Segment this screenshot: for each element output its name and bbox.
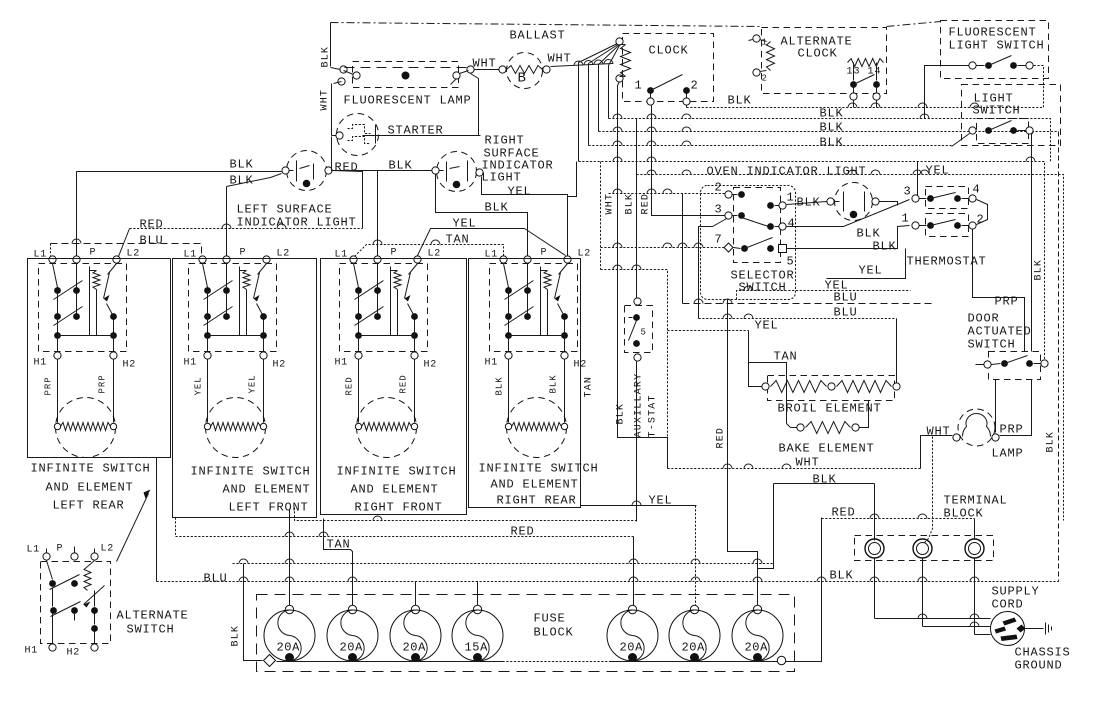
svg-text:H1: H1 [184, 358, 198, 369]
wire YEL bottom seg [581, 505, 697, 507]
svg-text:P: P [57, 544, 64, 555]
fuse F2 20A [348, 605, 356, 613]
resistor broil coil 1 [771, 381, 827, 393]
node clock coil terminals [616, 38, 623, 45]
svg-text:BALLAST: BALLAST [510, 29, 566, 43]
switch thermostat row2 [912, 222, 919, 229]
alternate clock dashed box [762, 28, 887, 94]
resistor alt clock coil [767, 42, 775, 71]
svg-text:YEL: YEL [859, 264, 883, 278]
wire fuse bottom rail 1 [277, 661, 503, 663]
svg-text:BLU: BLU [834, 306, 858, 320]
resistor bake coil [806, 422, 851, 434]
wire TAN L1u3 to L1u4 [355, 245, 504, 257]
wire unit1 riser to BLU [156, 458, 158, 582]
node ballast terminals [499, 66, 506, 73]
wire alt H wires [52, 614, 54, 644]
resistor ballast coil [507, 66, 543, 74]
wire BLU-BLK y581 [157, 581, 1059, 583]
wire vertical feeder x608 [608, 66, 610, 119]
supply cord plug [991, 612, 1025, 646]
node terminal post 3 [965, 539, 984, 558]
svg-text:4: 4 [973, 183, 981, 197]
svg-text:YEL: YEL [926, 164, 950, 178]
switch aux tstat contacts [633, 314, 640, 321]
left surface indicator light circle [287, 151, 327, 191]
fuse F7 20A [753, 605, 761, 613]
wire vertical feeder x588 [588, 64, 590, 146]
svg-text:L2: L2 [127, 249, 141, 260]
svg-text:WHT: WHT [605, 193, 616, 215]
wire pin2 long feed y193 [609, 193, 725, 195]
node alt lower dots [91, 607, 98, 614]
svg-text:BLK: BLK [830, 569, 854, 583]
wire clock pin2 down [686, 105, 688, 108]
node broil terminals [762, 383, 769, 390]
svg-text:BLK: BLK [820, 121, 844, 135]
svg-text:WHT: WHT [927, 425, 951, 439]
svg-text:4: 4 [788, 217, 796, 231]
svg-text:20A: 20A [745, 641, 769, 655]
wire WHT to post2 [924, 437, 933, 544]
switch selector row1 [725, 191, 732, 198]
svg-text:FLUORESCENT LAMP: FLUORESCENT LAMP [344, 94, 472, 108]
thermostat dashed box [926, 187, 969, 209]
svg-text:BLK: BLK [857, 227, 881, 241]
svg-text:BLOCK: BLOCK [534, 626, 574, 640]
node light right terminal [325, 167, 332, 174]
infinite switch unit 1 left rear [39, 264, 127, 352]
fuse F5 20A [628, 605, 636, 613]
wire fuse rail to riser [786, 518, 822, 662]
svg-text:SWITCH: SWITCH [973, 104, 1021, 118]
infinite switch unit 2 left front [189, 264, 277, 352]
svg-text:SWITCH: SWITCH [739, 281, 787, 295]
starter dashed circle [337, 114, 379, 156]
wire left vertical to P1 [76, 172, 78, 256]
svg-text:P: P [541, 248, 548, 259]
svg-text:THERMOSTAT: THERMOSTAT [907, 255, 987, 269]
wire YEL light to L2u4 [482, 177, 568, 256]
node light dot [303, 180, 311, 188]
svg-text:7: 7 [715, 233, 723, 247]
switch light switch [969, 127, 976, 134]
alternate switch dashed box [41, 562, 111, 644]
lamp bars right light [446, 162, 448, 182]
svg-text:L1: L1 [27, 545, 41, 556]
wire vertical WHT x617 [618, 82, 668, 469]
node lamp terminals [953, 434, 960, 441]
svg-text:INFINITE SWITCH: INFINITE SWITCH [31, 462, 151, 476]
wire BLK jog left vertical [758, 484, 774, 569]
wire RED diagonal to L2 unit1 [119, 229, 130, 257]
svg-text:WHT: WHT [320, 89, 331, 111]
svg-text:SUPPLY: SUPPLY [992, 585, 1040, 599]
fuse F1 20A [285, 605, 293, 613]
resistor alt clock coil2 horizontal [848, 59, 884, 67]
node right light terminals [432, 167, 439, 174]
svg-text:CORD: CORD [992, 598, 1024, 612]
node alt H terminals [49, 644, 56, 651]
svg-text:2: 2 [762, 74, 767, 84]
svg-text:20A: 20A [277, 641, 301, 655]
wire oven light right [880, 202, 898, 206]
wire fluor switch left [925, 66, 969, 119]
svg-text:WHT: WHT [796, 456, 820, 470]
svg-text:L2: L2 [578, 249, 592, 260]
svg-text:RED: RED [832, 506, 856, 520]
svg-text:L2: L2 [101, 544, 115, 555]
wire x682 riser [682, 194, 684, 304]
svg-text:20A: 20A [340, 641, 364, 655]
resistor clock coil [621, 45, 631, 77]
node oven light terminals [827, 198, 834, 205]
svg-text:1: 1 [787, 191, 795, 205]
wire TAN corner [749, 363, 787, 424]
svg-text:YEL: YEL [649, 494, 673, 508]
selector switch body box [701, 186, 796, 300]
node light left terminal [282, 167, 289, 174]
wire top dashed run [331, 23, 762, 27]
svg-text:B: B [518, 71, 526, 87]
svg-text:YEL: YEL [248, 374, 258, 393]
node diamond terminal [264, 655, 276, 667]
svg-text:1: 1 [902, 212, 910, 226]
svg-text:TERMINAL: TERMINAL [944, 494, 1008, 508]
svg-text:ACTUATED: ACTUATED [968, 325, 1032, 339]
wire broil right feed [896, 319, 898, 383]
lamp arch [963, 413, 991, 436]
svg-text:TAN: TAN [584, 376, 595, 398]
node right light dot [453, 181, 461, 189]
lamp dashed circle [958, 409, 995, 446]
svg-text:RED: RED [140, 218, 164, 232]
wire lamp left down to starter [331, 84, 333, 136]
wire clock pin1 down [652, 105, 725, 216]
fuse block dashed box [257, 595, 795, 672]
unit1 outer box [28, 259, 171, 458]
wire BLK band L4 y145 [589, 145, 952, 147]
svg-text:AND ELEMENT: AND ELEMENT [351, 483, 439, 497]
wire fuse4 feed [477, 582, 479, 610]
wire starter to lamp right [363, 135, 481, 137]
switch alt clock contacts [850, 81, 857, 88]
svg-text:RIGHT REAR: RIGHT REAR [497, 494, 577, 508]
svg-text:3: 3 [904, 185, 912, 199]
svg-text:YEL: YEL [194, 376, 204, 395]
node clock pin sockets [647, 98, 654, 105]
wire lamp right side down [471, 74, 479, 136]
wire BLK diagonal to light [227, 174, 282, 187]
node selector pin4 [767, 223, 774, 230]
svg-text:RIGHT: RIGHT [485, 134, 525, 148]
wire WHT y468 [668, 468, 921, 470]
svg-text:T-STAT: T-STAT [648, 394, 659, 437]
wire fluorescent left side BLK [330, 23, 332, 67]
svg-text:LIGHT: LIGHT [482, 171, 522, 185]
wire YEL therm [827, 249, 906, 279]
wire fan from clock coil [579, 43, 620, 63]
wire light switch arm [952, 134, 970, 147]
svg-text:2: 2 [691, 79, 699, 93]
node bake terminals [797, 424, 804, 431]
alt switch stubs [46, 549, 48, 553]
node terminal post 1 [865, 539, 884, 558]
wire fuse rail dotted middle [503, 661, 610, 663]
wire vertical feeder x598 [598, 65, 600, 132]
wire terminal1 vertical [874, 539, 876, 541]
wire bake left feed [791, 427, 797, 429]
wire vertical feeder x578 [578, 63, 580, 162]
node fuse rail circle [777, 656, 785, 664]
terminal block dashed box [855, 536, 994, 561]
svg-text:STARTER: STARTER [388, 124, 444, 138]
svg-text:BLK: BLK [1034, 259, 1045, 281]
wire TAN y563 [353, 563, 774, 565]
svg-text:AND ELEMENT: AND ELEMENT [491, 478, 579, 492]
unit4 outer box [469, 259, 581, 508]
svg-text:H2: H2 [424, 360, 438, 371]
svg-text:BLK: BLK [495, 376, 505, 395]
wire BLK jog y483 [774, 483, 875, 485]
node starter left terminal [336, 132, 343, 139]
svg-text:2: 2 [715, 181, 723, 195]
wire y520 line [295, 508, 637, 521]
svg-text:BLK: BLK [820, 136, 844, 150]
svg-text:FUSE: FUSE [534, 612, 566, 626]
svg-text:RED: RED [399, 374, 409, 393]
wire RED distribution y228 [130, 228, 363, 230]
svg-text:LEFT REAR: LEFT REAR [53, 499, 125, 513]
unit3 outer box [321, 259, 467, 515]
oven section box top [637, 175, 1064, 521]
svg-text:SWITCH: SWITCH [968, 338, 1016, 352]
wire selector pin4 diagonal [787, 200, 910, 227]
svg-text:BLK: BLK [728, 94, 752, 108]
node selector pin5 [767, 245, 774, 252]
fuse F4 15A [473, 605, 481, 613]
wire fuse2 feed [352, 564, 354, 610]
wire BLK light to P u4 [436, 175, 528, 256]
lamp bars oven light [843, 192, 845, 212]
lamp bars left light [296, 161, 298, 182]
wire fuse1 feed [289, 509, 291, 610]
wire supply run 3 [975, 634, 991, 636]
switch fluor light switch [969, 62, 976, 69]
wire terminal2 vertical [922, 559, 924, 627]
wire lamp internal dashed line [345, 67, 471, 69]
node alt clock coil terminals [753, 35, 760, 42]
svg-text:PRP: PRP [1000, 423, 1024, 437]
wire y269 cross run [601, 270, 668, 469]
svg-text:CLOCK: CLOCK [649, 44, 689, 58]
ballast dashed circle [507, 53, 543, 89]
svg-text:1: 1 [635, 79, 643, 93]
wire door left stub [976, 364, 984, 366]
svg-text:WHT: WHT [473, 57, 497, 71]
wire pin3 diagonal riser [699, 218, 729, 319]
node oven light dot [850, 211, 858, 219]
svg-text:SWITCH: SWITCH [127, 623, 175, 637]
svg-text:BLK: BLK [616, 403, 627, 425]
switch selector row2 [725, 212, 732, 219]
node fluorescent lamp left terminals [340, 66, 347, 73]
right surface indicator light circle [437, 152, 477, 192]
wire bake right feed [860, 401, 869, 428]
svg-text:RED: RED [716, 427, 727, 449]
svg-text:RED: RED [641, 193, 652, 215]
light switch outer dashed box [962, 85, 1061, 146]
node alt switch terminals [43, 553, 50, 560]
svg-text:YEL: YEL [755, 319, 779, 333]
svg-text:BAKE ELEMENT: BAKE ELEMENT [779, 442, 875, 456]
light switch inner dashed box [977, 119, 1029, 144]
svg-text:DOOR: DOOR [968, 312, 1000, 326]
svg-text:OVEN INDICATOR LIGHT: OVEN INDICATOR LIGHT [707, 165, 867, 179]
node lamp right terminals [453, 72, 460, 79]
wire vertical x377 to unit3 P [377, 171, 379, 256]
wire RED y536 [176, 518, 634, 537]
wire ballast to clock [551, 64, 613, 67]
wire BLK jog right vertical [874, 484, 876, 541]
svg-text:H1: H1 [335, 358, 349, 369]
switch alt contacts upper [49, 580, 56, 587]
wire RED vertical selector to fuse7 [728, 300, 758, 610]
svg-text:AND ELEMENT: AND ELEMENT [223, 483, 311, 497]
wire vertical x226 to unit2 P [226, 187, 228, 256]
svg-text:5: 5 [641, 328, 646, 338]
switch alt contacts lower [50, 607, 57, 614]
alt switch arrow [84, 586, 105, 605]
wire supply run 2 [923, 626, 991, 628]
arrow to unit1 label [117, 494, 149, 562]
fluorescent lamp dashed box [353, 62, 459, 88]
svg-text:15A: 15A [465, 641, 489, 655]
svg-text:H2: H2 [123, 360, 137, 371]
svg-text:INFINITE SWITCH: INFINITE SWITCH [479, 462, 599, 476]
wire BLU distribution y243 [51, 244, 202, 256]
broil element dashed box [768, 376, 895, 401]
svg-text:BLK: BLK [230, 158, 254, 172]
svg-text:ALTERNATE: ALTERNATE [117, 609, 189, 623]
wire selector pin5 to thermostat [787, 226, 910, 249]
svg-text:BLU: BLU [204, 572, 228, 586]
svg-text:CLOCK: CLOCK [798, 47, 838, 61]
svg-text:RIGHT FRONT: RIGHT FRONT [355, 501, 443, 515]
svg-text:INFINITE SWITCH: INFINITE SWITCH [337, 465, 457, 479]
node selector pin1 [767, 202, 774, 209]
svg-text:BLU: BLU [140, 234, 164, 248]
svg-text:P: P [391, 248, 398, 259]
svg-text:FLUORESCENT: FLUORESCENT [949, 26, 1037, 40]
wire TAN left stub [233, 563, 353, 565]
door switch dashed box [989, 352, 1041, 380]
node aux tstat top terminal [634, 298, 641, 305]
svg-text:BLK: BLK [549, 374, 559, 393]
svg-text:1: 1 [762, 38, 767, 48]
wire YEL L2u3 to L2u4 [418, 229, 525, 256]
wire light switch right [1032, 132, 1034, 352]
wire BLK band L2 y118 [609, 119, 1051, 162]
wire lamp WHT side [921, 436, 953, 469]
svg-text:5: 5 [787, 255, 795, 269]
wire alt clock to band [853, 101, 855, 108]
fluorescent light switch dashed box [941, 21, 1049, 79]
wire right light left run [332, 137, 432, 171]
wire BLU y318 [699, 318, 897, 320]
svg-text:20A: 20A [620, 641, 644, 655]
switch door actuated [984, 361, 991, 368]
svg-text:20A: 20A [403, 641, 427, 655]
svg-text:3: 3 [715, 203, 723, 217]
resistor broil coil 2 [837, 381, 892, 393]
svg-text:AND ELEMENT: AND ELEMENT [46, 481, 134, 495]
wire BLK band L1 y107 [687, 66, 1044, 108]
wire supply run 1 [875, 618, 991, 620]
node terminal post 2 [913, 539, 932, 558]
svg-text:INDICATOR LIGHT: INDICATOR LIGHT [237, 216, 357, 230]
svg-text:PRP: PRP [995, 295, 1019, 309]
svg-text:PRP: PRP [44, 376, 54, 395]
wire BLK band L3 y131 [599, 131, 1059, 133]
wire door to lamp PRP [995, 380, 997, 433]
svg-text:H2: H2 [273, 360, 287, 371]
svg-text:CHASSIS: CHASSIS [1015, 646, 1071, 660]
svg-text:YEL: YEL [508, 185, 532, 199]
svg-text:LAMP: LAMP [992, 447, 1024, 461]
svg-text:P: P [240, 248, 247, 259]
svg-text:TAN: TAN [774, 350, 798, 364]
infinite switch unit 3 right front [340, 264, 428, 352]
wire fuse bottom rail 2 [610, 661, 778, 663]
wire chassis ground lead [1025, 628, 1044, 630]
svg-text:BLK: BLK [873, 240, 897, 254]
svg-text:BLK: BLK [231, 625, 242, 647]
wire broil left feed [749, 331, 762, 387]
switch selector row3 [724, 243, 733, 252]
clock dashed box [623, 34, 714, 102]
svg-text:RED: RED [335, 161, 359, 175]
unit2 outer box [173, 259, 317, 518]
plug prongs [1003, 618, 1017, 626]
svg-text:LEFT FRONT: LEFT FRONT [229, 501, 309, 515]
wire unit2 drop x323 [324, 519, 353, 564]
aux tstat dashed box [625, 306, 653, 353]
svg-text:RED: RED [345, 376, 355, 395]
wire right vertical BLK x1058 [1058, 132, 1060, 582]
wire left light right to RED line [333, 171, 363, 229]
svg-text:BROIL ELEMENT: BROIL ELEMENT [778, 402, 882, 416]
svg-text:BLOCK: BLOCK [944, 507, 984, 521]
wire PRP from therm pin2 [973, 230, 1025, 352]
svg-text:BLU: BLU [834, 291, 858, 305]
node lamp center dot [402, 72, 410, 80]
wire selector pin1 to oven light [787, 202, 827, 205]
wire alt clock left stub [749, 40, 753, 41]
svg-text:L2: L2 [428, 249, 442, 260]
wire BLK band L5 y161 [579, 162, 1045, 360]
starter body [348, 125, 371, 134]
svg-text:LEFT SURFACE: LEFT SURFACE [237, 203, 333, 217]
svg-text:WHT: WHT [548, 52, 572, 66]
wire fuse3 feed [415, 582, 417, 610]
fuse F3 20A [411, 605, 419, 613]
svg-text:GROUND: GROUND [1015, 659, 1063, 673]
svg-text:H2: H2 [67, 648, 81, 659]
svg-text:20A: 20A [682, 641, 706, 655]
wire BLK left run y171 [77, 171, 282, 173]
ballast wires WHT [475, 69, 503, 71]
